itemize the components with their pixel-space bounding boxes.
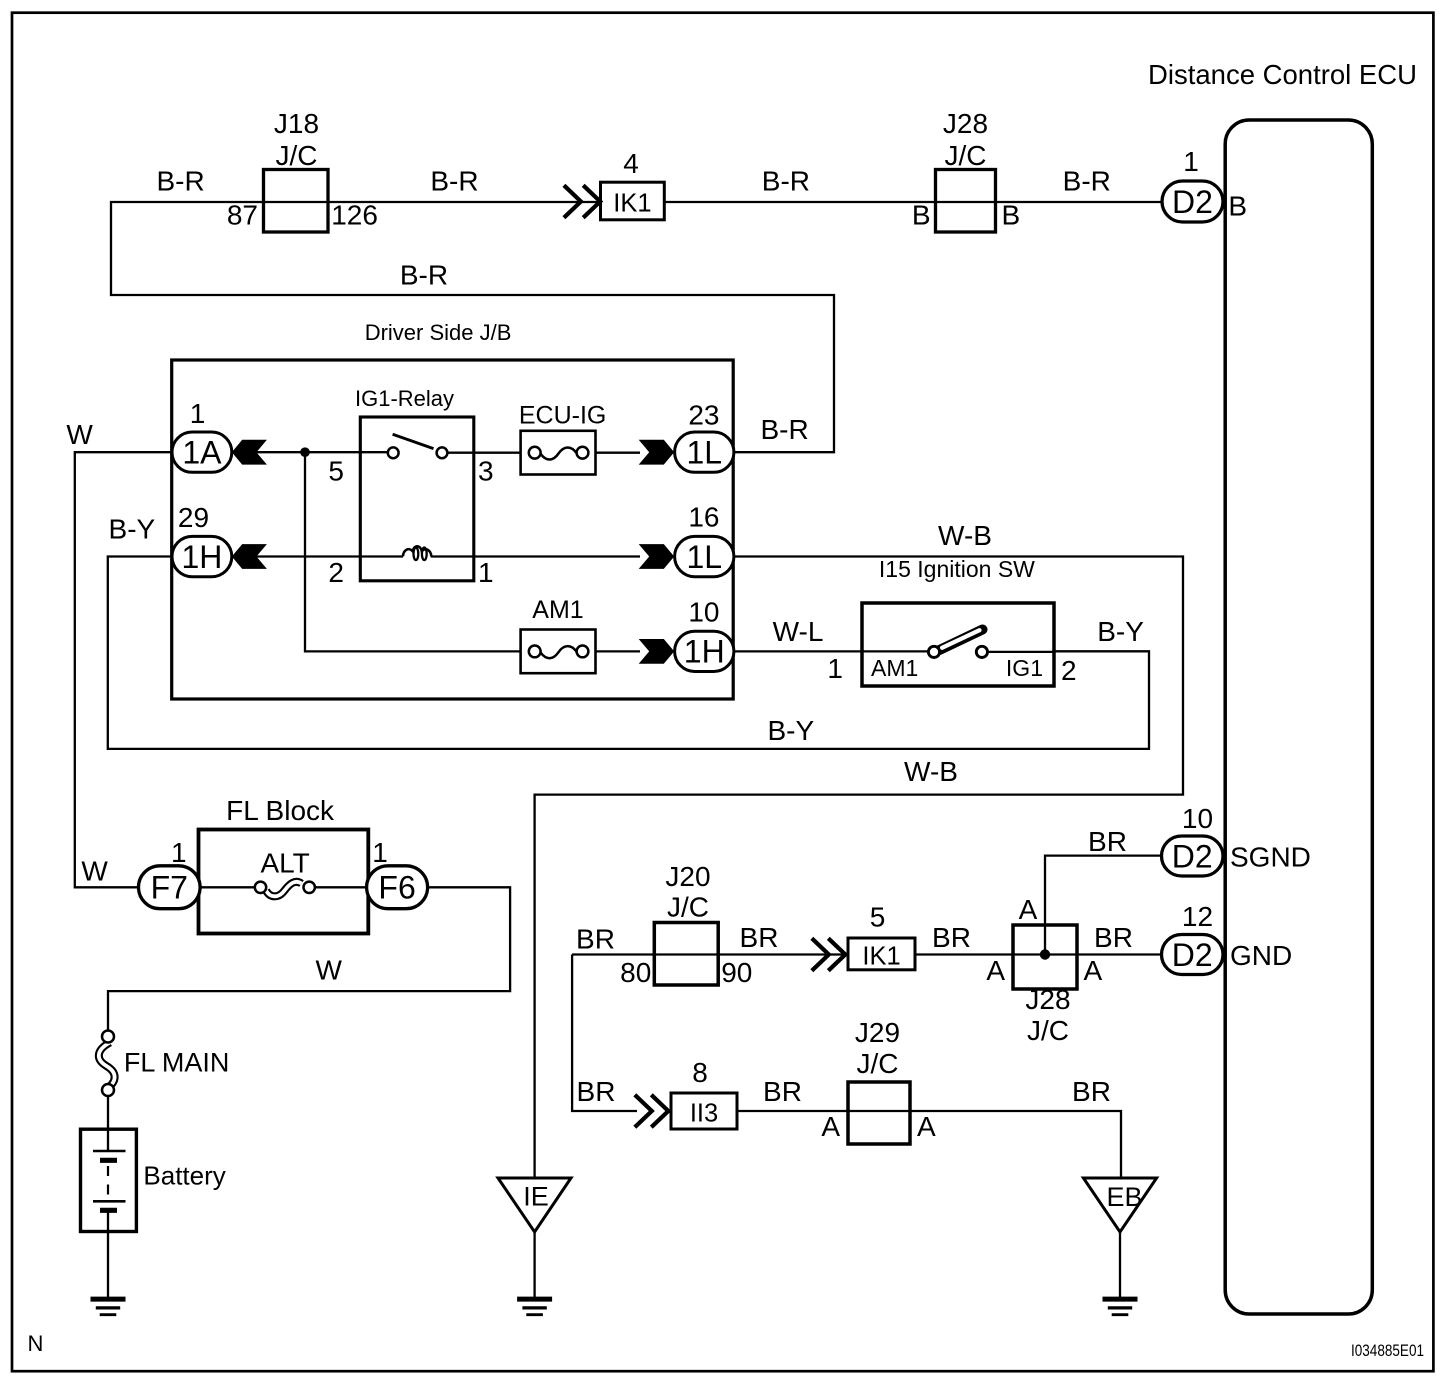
svg-text:IG1: IG1 (1006, 655, 1043, 681)
svg-text:J/C: J/C (945, 140, 987, 171)
svg-text:AM1: AM1 (532, 596, 583, 624)
svg-text:J29: J29 (855, 1017, 900, 1048)
svg-text:A: A (986, 955, 1005, 986)
svg-text:29: 29 (178, 502, 209, 533)
svg-text:B-R: B-R (156, 166, 204, 197)
svg-text:BR: BR (740, 922, 779, 953)
svg-text:IE: IE (523, 1182, 549, 1212)
svg-text:1: 1 (827, 653, 843, 684)
svg-text:FL MAIN: FL MAIN (124, 1047, 230, 1077)
svg-text:W: W (81, 856, 108, 887)
svg-text:B: B (1002, 200, 1021, 231)
svg-text:1A: 1A (182, 434, 222, 470)
svg-text:BR: BR (1088, 826, 1127, 857)
svg-text:16: 16 (688, 502, 719, 533)
svg-text:A: A (917, 1111, 936, 1142)
svg-text:Distance Control ECU: Distance Control ECU (1148, 59, 1417, 90)
svg-text:87: 87 (227, 200, 258, 231)
svg-text:2: 2 (1061, 655, 1077, 686)
svg-text:B-R: B-R (430, 166, 478, 197)
svg-text:B-R: B-R (760, 414, 808, 445)
svg-text:1H: 1H (684, 634, 725, 670)
svg-text:Battery: Battery (143, 1161, 225, 1191)
svg-text:ALT: ALT (260, 847, 309, 878)
svg-text:IG1-Relay: IG1-Relay (355, 386, 454, 411)
svg-text:J/C: J/C (1027, 1015, 1069, 1046)
svg-text:ECU-IG: ECU-IG (519, 402, 607, 430)
svg-text:90: 90 (721, 957, 752, 988)
svg-text:BR: BR (932, 922, 971, 953)
svg-text:I034885E01: I034885E01 (1351, 1341, 1424, 1360)
svg-text:B: B (912, 200, 931, 231)
svg-text:BR: BR (577, 1076, 616, 1107)
svg-text:W: W (66, 419, 93, 450)
svg-text:J/C: J/C (667, 892, 709, 923)
svg-text:N: N (28, 1331, 44, 1356)
svg-text:D2: D2 (1172, 838, 1213, 874)
svg-text:II3: II3 (690, 1100, 718, 1128)
svg-text:D2: D2 (1172, 184, 1213, 220)
svg-text:3: 3 (478, 456, 494, 487)
svg-text:4: 4 (623, 148, 639, 179)
svg-text:W-B: W-B (938, 520, 992, 551)
svg-text:23: 23 (688, 400, 719, 431)
svg-text:12: 12 (1182, 901, 1213, 932)
svg-text:1: 1 (478, 557, 494, 588)
svg-text:B: B (1228, 191, 1247, 222)
svg-text:5: 5 (328, 456, 344, 487)
svg-text:A: A (1084, 955, 1103, 986)
svg-text:A: A (1019, 894, 1038, 925)
svg-text:5: 5 (870, 901, 886, 932)
svg-text:8: 8 (692, 1057, 708, 1088)
svg-text:B-R: B-R (1063, 166, 1111, 197)
svg-text:80: 80 (620, 957, 651, 988)
svg-text:B-R: B-R (762, 166, 810, 197)
svg-text:J28: J28 (943, 108, 988, 139)
svg-text:1: 1 (171, 837, 187, 868)
svg-text:126: 126 (331, 200, 378, 231)
svg-text:B-Y: B-Y (109, 514, 156, 545)
svg-text:1: 1 (372, 837, 388, 868)
svg-text:F7: F7 (151, 870, 188, 906)
svg-text:EB: EB (1106, 1182, 1142, 1212)
svg-text:GND: GND (1230, 940, 1292, 971)
svg-text:BR: BR (576, 924, 615, 955)
svg-text:B-Y: B-Y (767, 715, 814, 746)
svg-text:AM1: AM1 (871, 655, 918, 681)
svg-text:1: 1 (1183, 146, 1199, 177)
svg-text:J18: J18 (274, 108, 319, 139)
svg-text:2: 2 (328, 557, 344, 588)
svg-text:J28: J28 (1025, 984, 1070, 1015)
svg-text:W: W (315, 955, 342, 986)
svg-text:1L: 1L (686, 539, 722, 575)
svg-text:IK1: IK1 (862, 942, 900, 970)
svg-text:BR: BR (1094, 922, 1133, 953)
svg-text:10: 10 (688, 597, 719, 628)
svg-text:W-L: W-L (773, 616, 824, 647)
svg-text:FL Block: FL Block (226, 795, 335, 826)
svg-text:D2: D2 (1172, 937, 1213, 973)
svg-text:F6: F6 (378, 870, 415, 906)
svg-text:I15 Ignition SW: I15 Ignition SW (879, 556, 1035, 582)
svg-text:1H: 1H (181, 539, 222, 575)
svg-text:J20: J20 (665, 861, 710, 892)
svg-text:1L: 1L (686, 434, 722, 470)
svg-text:Driver Side J/B: Driver Side J/B (365, 320, 512, 345)
svg-text:IK1: IK1 (613, 190, 651, 218)
svg-text:BR: BR (1072, 1076, 1111, 1107)
svg-text:B-Y: B-Y (1097, 616, 1144, 647)
svg-text:A: A (821, 1111, 840, 1142)
svg-text:10: 10 (1182, 803, 1213, 834)
svg-text:W-B: W-B (904, 756, 958, 787)
svg-text:J/C: J/C (857, 1048, 899, 1079)
svg-text:J/C: J/C (276, 140, 318, 171)
svg-text:1: 1 (190, 398, 206, 429)
svg-text:BR: BR (763, 1076, 802, 1107)
svg-text:SGND: SGND (1230, 842, 1311, 873)
svg-text:B-R: B-R (400, 260, 448, 291)
